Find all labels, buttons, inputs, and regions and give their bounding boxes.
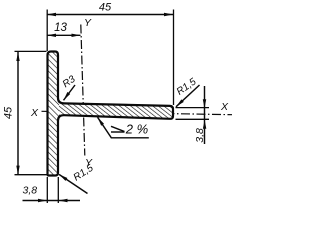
svg-text:X: X	[220, 101, 229, 113]
svg-text:Y: Y	[84, 17, 92, 29]
svg-text:45: 45	[99, 2, 112, 14]
svg-text:3,8: 3,8	[22, 184, 37, 196]
svg-text:2 %: 2 %	[125, 122, 148, 137]
svg-text:45: 45	[3, 106, 15, 119]
svg-text:X: X	[30, 107, 39, 119]
svg-text:3,8: 3,8	[194, 128, 206, 143]
svg-text:13: 13	[54, 22, 67, 34]
